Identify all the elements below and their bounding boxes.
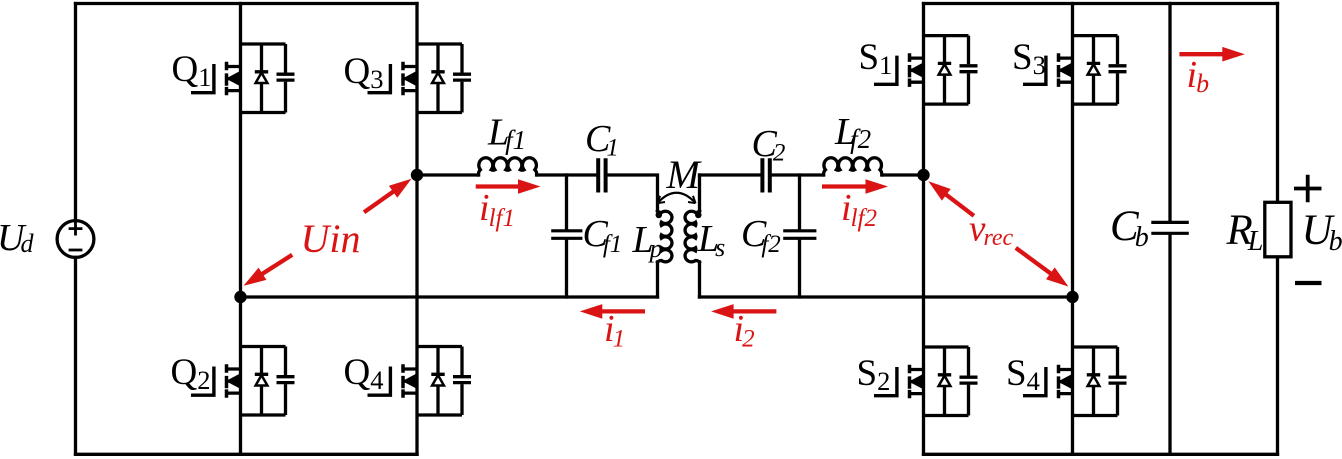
svg-text:Ls: Ls (697, 218, 725, 262)
current arrow i1 (580, 304, 645, 352)
wire secondary bottom rail (700, 295, 1073, 298)
transistor S3 (1012, 36, 1127, 105)
svg-text:Uin: Uin (301, 216, 361, 261)
current arrow i2 (711, 304, 776, 352)
polarity dot Ls (695, 212, 702, 219)
capacitor Cf1 shunt branch (565, 175, 568, 297)
svg-text:i2: i2 (734, 308, 755, 353)
svg-text:S2: S2 (857, 353, 891, 396)
wire top rail left (76, 2, 418, 5)
wire rectifier leg S3/S4 (1071, 4, 1074, 455)
wire left source rail (74, 4, 77, 455)
inductor Lf1 (478, 158, 536, 175)
svg-text:Cf2: Cf2 (741, 213, 781, 258)
transistor Q2 (171, 347, 295, 416)
svg-text:Lp: Lp (632, 219, 663, 263)
node B (inverter output bottom) (234, 291, 246, 303)
capacitor C2 (762, 160, 769, 190)
svg-text:Q3: Q3 (344, 51, 384, 94)
wire top rail right (924, 2, 1278, 5)
svg-text:vrec: vrec (969, 209, 1014, 252)
svg-text:i1: i1 (604, 308, 625, 353)
mutual coupling M (658, 152, 703, 203)
svg-text:Lf1: Lf1 (487, 112, 526, 156)
svg-text:Q2: Q2 (171, 352, 211, 395)
svg-text:ilf2: ilf2 (841, 187, 877, 232)
wire rectifier leg S1/S2 (922, 4, 925, 455)
node A (inverter output top) (411, 169, 423, 181)
svg-text:ib: ib (1187, 54, 1210, 98)
coil Lp (658, 211, 672, 262)
svg-text:Lf2: Lf2 (834, 111, 871, 154)
current arrow i_lf1 (476, 179, 541, 232)
transistor Q4 (344, 347, 472, 416)
svg-text:Ud: Ud (0, 217, 34, 259)
current arrow ib (1179, 47, 1244, 98)
wire secondary top (700, 173, 924, 176)
svg-text:Cb: Cb (1110, 203, 1149, 253)
transistor Q1 (172, 44, 295, 113)
svg-text:Cf1: Cf1 (583, 213, 623, 258)
svg-text:ilf1: ilf1 (479, 187, 515, 232)
resistor RL (1265, 202, 1291, 256)
wire inverter leg Q1/Q2 (239, 4, 242, 455)
coil Ls (698, 175, 701, 211)
svg-text:S1: S1 (859, 37, 893, 80)
svg-text:Ub: Ub (1302, 207, 1342, 257)
capacitor Cb branch (1168, 4, 1171, 455)
transistor S4 (1006, 347, 1127, 416)
annotation Uin with arrows (244, 179, 412, 286)
voltage source Ud (57, 221, 94, 258)
wire bottom rail left (76, 453, 418, 456)
svg-text:Q4: Q4 (344, 352, 384, 395)
inductor Lf2 (824, 158, 882, 175)
polarity dot Lp (656, 212, 663, 219)
label plus Ub (1294, 175, 1322, 203)
annotation vrec with arrows (928, 181, 1068, 286)
transistor S1 (859, 36, 978, 105)
node rectifier input bottom (1066, 291, 1078, 303)
label minus Ub (1295, 281, 1322, 285)
svg-text:C1: C1 (585, 118, 619, 162)
svg-text:C2: C2 (752, 123, 786, 167)
wire primary bottom rail (241, 295, 658, 298)
node rectifier input top (917, 169, 929, 181)
svg-text:S4: S4 (1006, 353, 1040, 396)
svg-text:Q1: Q1 (172, 49, 212, 92)
capacitor C1 (598, 160, 605, 190)
wire bottom rail right (924, 453, 1278, 456)
capacitor Cf2 shunt branch (798, 175, 801, 297)
wire output rail (1276, 4, 1279, 455)
current arrow i_lf2 (822, 179, 888, 232)
transistor S2 (857, 347, 978, 416)
wire tank input top (417, 175, 658, 211)
svg-text:M: M (666, 152, 703, 197)
svg-text:RL: RL (1226, 207, 1264, 257)
wire inverter leg Q3/Q4 (415, 4, 418, 455)
transistor Q3 (344, 44, 472, 113)
svg-text:S3: S3 (1012, 37, 1046, 80)
